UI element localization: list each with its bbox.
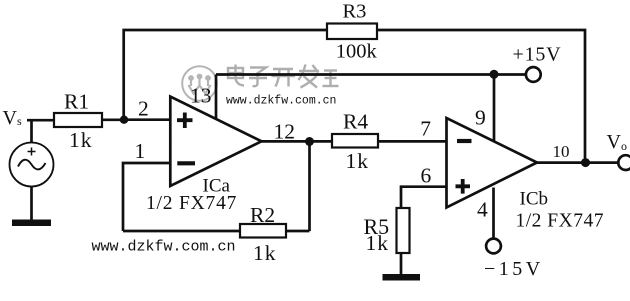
wire ICb output xyxy=(537,161,618,164)
resistor R1 xyxy=(54,89,102,152)
svg-text:1/2 FX747: 1/2 FX747 xyxy=(146,193,237,214)
svg-text:1k: 1k xyxy=(366,231,390,255)
wire R5 to ground xyxy=(400,253,403,275)
svg-text:R2: R2 xyxy=(250,203,275,227)
svg-text:R1: R1 xyxy=(64,89,89,113)
terminal +15V xyxy=(513,43,562,82)
op-amp ICb xyxy=(447,118,538,208)
svg-text:13: 13 xyxy=(190,84,212,108)
watermark chinese char 4 (fa) xyxy=(299,65,320,88)
svg-text:6: 6 xyxy=(421,163,432,187)
wire +15V rail xyxy=(216,73,526,76)
svg-text:ICb: ICb xyxy=(520,189,549,210)
svg-text:9: 9 xyxy=(475,105,486,129)
pin 4 stub xyxy=(492,188,495,239)
pin 13 stub xyxy=(215,75,218,120)
svg-text:1/2 FX747: 1/2 FX747 xyxy=(516,211,604,232)
wire node 2 to ICa + input xyxy=(124,118,170,121)
svg-text:10: 10 xyxy=(553,142,570,161)
svg-text:www.dzkfw.com.cn: www.dzkfw.com.cn xyxy=(92,239,236,256)
resistor R4 xyxy=(332,109,378,173)
ground (R5) xyxy=(383,274,421,281)
svg-text:1k: 1k xyxy=(253,241,277,265)
resistor R3 xyxy=(327,0,378,62)
wire R1 right lead to node 2 xyxy=(102,118,124,121)
svg-text:R4: R4 xyxy=(343,109,368,133)
svg-text:www.dzkfw.com.cn: www.dzkfw.com.cn xyxy=(226,95,336,108)
wire source to ground xyxy=(30,187,33,221)
watermark logo W circle xyxy=(182,66,217,101)
watermark chinese char 1 (dian) xyxy=(228,65,244,86)
AC source Vs xyxy=(10,143,54,187)
svg-text:12: 12 xyxy=(274,119,296,143)
svg-text:+15V: +15V xyxy=(513,43,562,65)
node 2 junction xyxy=(120,116,128,124)
wire ICb + input to R5 xyxy=(401,187,447,209)
svg-text:2: 2 xyxy=(138,97,149,121)
terminal Vo xyxy=(607,131,630,170)
junction output node xyxy=(581,158,590,167)
resistor R2 xyxy=(240,203,286,265)
wire ICa output down to R2 xyxy=(308,142,311,232)
wire ICa - input feedback xyxy=(123,163,170,231)
svg-text:100k: 100k xyxy=(336,40,378,62)
svg-text:4: 4 xyxy=(477,197,488,221)
watermark chinese char 3 (kai) xyxy=(272,69,296,87)
svg-text:1: 1 xyxy=(135,139,146,163)
svg-text:7: 7 xyxy=(420,116,431,140)
watermark chinese char 2 (zi) xyxy=(249,68,267,87)
svg-text:1k: 1k xyxy=(346,149,370,173)
svg-text:Vo: Vo xyxy=(607,131,627,153)
svg-text:−15V: −15V xyxy=(484,258,544,280)
watermark chinese char 5 (wang) xyxy=(323,71,339,87)
svg-text:Vs: Vs xyxy=(3,107,22,129)
wire Vs lead to R1 xyxy=(27,120,55,143)
junction +15V rail / pin 9 xyxy=(490,70,499,79)
junction ICa output xyxy=(305,137,314,146)
resistor R5 xyxy=(364,208,410,255)
ground (source) xyxy=(12,220,51,227)
op-amp ICa xyxy=(170,97,261,187)
pin 9 stub xyxy=(493,75,496,143)
wire ICa output to R4 and ICb xyxy=(262,140,447,143)
svg-text:R3: R3 xyxy=(343,0,367,22)
svg-text:1k: 1k xyxy=(69,128,93,152)
wire feedback branch to R3 xyxy=(124,30,585,163)
wire R2 run xyxy=(123,230,310,233)
terminal -15V xyxy=(484,239,544,280)
